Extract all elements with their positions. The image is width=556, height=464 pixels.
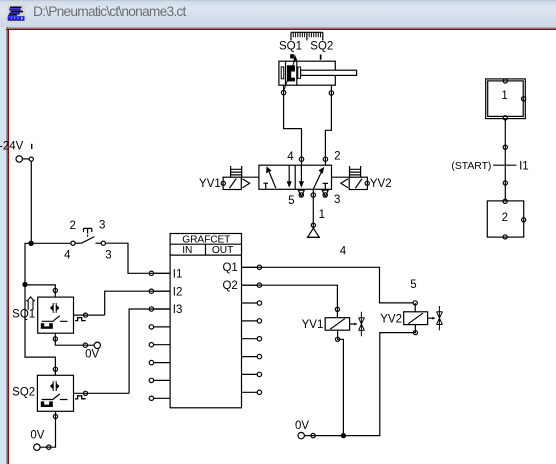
transition bar xyxy=(493,164,516,166)
svg-text:5: 5 xyxy=(410,279,416,291)
compressed air source xyxy=(311,223,315,227)
port 5 exhaust xyxy=(298,190,304,196)
svg-text:-24V: -24V xyxy=(0,141,24,153)
step 1 (initial, double box) xyxy=(486,79,526,119)
left square down arrow xyxy=(288,165,290,183)
pin tick 1 xyxy=(31,144,32,149)
svg-text:I1: I1 xyxy=(519,160,529,172)
wire junction jog down xyxy=(25,243,31,284)
SQ1 contact xyxy=(42,316,68,322)
left square blocked port T xyxy=(263,183,268,188)
wire 24V down xyxy=(30,161,32,243)
port 1 connection xyxy=(311,193,315,197)
input stubs xyxy=(149,271,170,400)
svg-text:Q1: Q1 xyxy=(222,262,237,274)
wire down to SQ2 xyxy=(25,285,55,376)
svg-text:YV2: YV2 xyxy=(370,178,392,190)
svg-text:I2: I2 xyxy=(173,286,183,298)
piston magnet block xyxy=(287,65,295,81)
svg-text:3: 3 xyxy=(99,220,105,232)
SQ2 contact xyxy=(42,394,68,400)
YV1 solenoid connection xyxy=(221,181,225,185)
wire to SQ1 top xyxy=(25,285,55,297)
wire SQ2 output to I3 xyxy=(129,309,170,393)
wire junction to switch xyxy=(31,242,71,244)
piston rod xyxy=(301,70,357,75)
YV1 manual override xyxy=(231,166,242,177)
YV1 pilot solenoid xyxy=(223,177,241,189)
SQ1 position flag marker xyxy=(290,54,297,61)
svg-text:YV1: YV1 xyxy=(199,178,221,190)
YV2 manual override xyxy=(350,166,361,177)
svg-text:SQ2: SQ2 xyxy=(12,387,35,399)
output stubs xyxy=(242,265,262,394)
FESTO logo icon xyxy=(8,6,26,23)
valve port 2 connection xyxy=(323,157,327,161)
svg-text:5: 5 xyxy=(288,195,294,207)
svg-text:2: 2 xyxy=(334,151,340,163)
svg-text:GRAFCET: GRAFCET xyxy=(182,234,230,245)
SQ2 magnet block xyxy=(41,401,53,407)
junction node 2 xyxy=(22,282,27,287)
svg-text:IN: IN xyxy=(182,245,192,256)
valve port 4 connection xyxy=(299,157,303,161)
ruler scale xyxy=(291,32,323,40)
piston plate xyxy=(296,61,298,85)
SQ1 up arrow marker xyxy=(26,297,35,310)
svg-text:SQ1: SQ1 xyxy=(12,308,35,320)
YV2 bottom connection xyxy=(346,325,415,436)
right square diagonal arrow (1 to 2) xyxy=(313,171,322,189)
YV1 valve link indicator xyxy=(350,323,355,325)
wire SQ1 output to I2 xyxy=(105,291,170,315)
SQ1 bottom connection xyxy=(55,333,94,345)
cylinder left port connection xyxy=(283,85,285,96)
svg-text:I3: I3 xyxy=(173,304,183,316)
piston position diagonal line xyxy=(284,58,296,91)
svg-text:Q2: Q2 xyxy=(222,280,237,292)
SQ2 0V wire xyxy=(47,445,51,449)
bottom 0V terminal xyxy=(298,432,304,438)
right square down arrow (port4 to 5) xyxy=(300,165,302,183)
svg-text:0V: 0V xyxy=(295,420,309,432)
SQ2 output pulse symbol xyxy=(74,392,130,394)
SQ1 output pulse symbol xyxy=(74,314,105,316)
wire Q1 to YV2 coil xyxy=(242,267,414,303)
svg-text:YV1: YV1 xyxy=(302,319,324,331)
YV2 solenoid connection xyxy=(365,181,369,185)
wire Q2 to YV1 coil xyxy=(242,285,338,318)
+24V supply terminal xyxy=(16,156,22,162)
svg-text:SQ2: SQ2 xyxy=(310,40,333,52)
YV2 pilot solenoid xyxy=(349,177,367,189)
valve divider xyxy=(294,165,296,189)
svg-text:4: 4 xyxy=(64,250,71,262)
svg-text:SQ1: SQ1 xyxy=(279,40,302,52)
title bar xyxy=(0,0,556,27)
cylinder left cap divider xyxy=(285,61,287,85)
YV1 bottom connection xyxy=(338,330,344,435)
step 2 box xyxy=(487,201,523,237)
SQ2 diamond sensor symbol xyxy=(50,381,60,391)
start switch contact xyxy=(71,241,75,245)
svg-text:1: 1 xyxy=(501,90,507,102)
svg-text:1: 1 xyxy=(319,209,325,221)
left square diagonal arrow xyxy=(268,170,276,188)
wire cylinder left port to valve port 4 xyxy=(284,96,302,165)
wire port1 to air source xyxy=(312,189,314,228)
svg-text:3: 3 xyxy=(105,249,111,261)
svg-text:4: 4 xyxy=(287,151,294,163)
svg-text:3: 3 xyxy=(334,194,340,206)
svg-text:2: 2 xyxy=(502,212,508,224)
svg-text:4: 4 xyxy=(340,245,347,257)
wire cylinder right port to valve port 2 xyxy=(325,96,331,165)
cylinder barrel xyxy=(279,61,335,85)
YV2 valve link indicator xyxy=(428,317,433,319)
svg-text:0V: 0V xyxy=(30,430,44,442)
svg-text:YV2: YV2 xyxy=(380,313,402,325)
valve body xyxy=(259,165,332,189)
bottom junction node xyxy=(341,433,346,438)
svg-text:(START): (START) xyxy=(451,161,491,172)
svg-text:0V: 0V xyxy=(85,349,99,361)
SQ1 0V wire xyxy=(83,343,87,347)
port 3 exhaust xyxy=(322,190,328,196)
rod collar xyxy=(298,67,301,78)
SQ2 bottom connection xyxy=(40,411,55,447)
junction node xyxy=(28,241,33,246)
SQ1 diamond sensor symbol xyxy=(50,303,60,313)
wire switch to I1 xyxy=(105,243,170,273)
switch actuator T xyxy=(84,228,92,236)
right square blocked port T xyxy=(323,183,328,189)
cylinder right port connection xyxy=(330,85,332,96)
svg-text:OUT: OUT xyxy=(212,245,234,256)
SQ2 position tick marker xyxy=(320,55,322,60)
SQ1 magnet block xyxy=(41,323,53,329)
cylinder cushion bracket xyxy=(281,67,284,79)
svg-text:I1: I1 xyxy=(173,269,183,281)
wire step1 to transition xyxy=(504,119,506,201)
svg-text:2: 2 xyxy=(69,220,75,232)
